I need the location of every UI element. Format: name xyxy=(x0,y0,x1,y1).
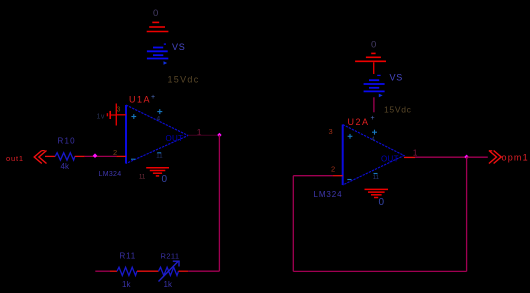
battery arrow xyxy=(379,94,383,98)
svg-text:+: + xyxy=(371,115,375,122)
svg-text:+: + xyxy=(151,94,155,101)
wire battery to opamp xyxy=(373,97,375,112)
V+ power marker xyxy=(372,130,377,135)
svg-text:15Vdc: 15Vdc xyxy=(168,75,200,85)
wire stub source to vertical xyxy=(111,114,117,116)
wire to output vertical xyxy=(179,270,189,272)
svg-text:0: 0 xyxy=(162,174,168,185)
wire output vertical xyxy=(218,135,220,271)
resistor R211 (variable) xyxy=(159,267,179,275)
port chevron >> xyxy=(489,151,501,164)
op-amp U1 triangle xyxy=(126,105,188,164)
svg-text:11: 11 xyxy=(139,175,146,181)
svg-text:0: 0 xyxy=(379,197,385,208)
battery VS (left) xyxy=(147,44,168,58)
svg-text:11: 11 xyxy=(373,175,380,181)
V- marker xyxy=(374,173,378,175)
resistor R11 xyxy=(117,267,137,275)
svg-text:LM324: LM324 xyxy=(99,171,122,178)
wire to junction J3 xyxy=(415,156,466,158)
pin 2 stub xyxy=(116,155,126,157)
svg-text:0: 0 xyxy=(371,40,376,51)
svg-text:1v: 1v xyxy=(97,114,105,121)
svg-text:2: 2 xyxy=(113,148,117,157)
feedback wire down xyxy=(466,157,468,271)
svg-text:1k: 1k xyxy=(164,280,173,289)
battery VS polarity arrow xyxy=(164,61,168,65)
port chevron << xyxy=(34,151,46,164)
output pin stub U2 xyxy=(404,156,415,158)
wire xyxy=(110,270,117,272)
wire xyxy=(188,270,219,272)
svg-text:R10: R10 xyxy=(58,137,76,146)
svg-text:VS: VS xyxy=(390,73,404,83)
svg-text:R211: R211 xyxy=(161,252,180,261)
svg-text:U1A: U1A xyxy=(129,95,151,105)
bottom wire left end xyxy=(95,270,110,272)
V+ power marker xyxy=(157,109,162,114)
ground 0 (inverted earth ground, left stack) xyxy=(147,22,169,31)
wire between resistors xyxy=(137,270,159,272)
junction J2 xyxy=(217,133,221,137)
feedback wire to pin2 xyxy=(293,175,332,177)
ground under U2A xyxy=(365,189,389,197)
feedback wire up xyxy=(292,176,294,272)
V- marker xyxy=(157,152,161,154)
svg-text:OUT: OUT xyxy=(166,134,184,143)
svg-text:1k: 1k xyxy=(122,280,131,289)
svg-text:3: 3 xyxy=(329,127,333,136)
pin 2 stub xyxy=(333,175,343,177)
svg-text:0: 0 xyxy=(153,8,158,19)
svg-text:LM324: LM324 xyxy=(314,190,343,199)
minus input marker xyxy=(347,179,351,181)
svg-text:R11: R11 xyxy=(120,252,136,261)
junction J1 xyxy=(93,153,98,158)
svg-text:3: 3 xyxy=(117,107,121,114)
svg-text:opm1: opm1 xyxy=(502,153,529,163)
source V plates xyxy=(106,113,108,116)
plus input marker xyxy=(131,114,136,119)
+input pin stub xyxy=(116,114,126,116)
wire junction to pin2 xyxy=(85,155,117,157)
svg-text:out1: out1 xyxy=(6,154,24,163)
svg-text:OUT: OUT xyxy=(381,155,399,164)
svg-text:VS: VS xyxy=(172,42,186,52)
variable resistor arrow xyxy=(159,261,180,282)
ground (inverted, right stack) xyxy=(355,53,386,61)
svg-text:1: 1 xyxy=(413,148,418,158)
wire port to R10 xyxy=(45,155,55,157)
minus input marker xyxy=(131,158,135,160)
plus input marker xyxy=(348,134,353,139)
svg-text:4: 4 xyxy=(157,116,161,123)
svg-text:15Vdc: 15Vdc xyxy=(384,105,412,115)
ground under U1A xyxy=(146,168,169,176)
battery VS (right) xyxy=(364,75,385,91)
svg-text:4k: 4k xyxy=(61,162,70,171)
op-amp U2 triangle xyxy=(343,125,404,186)
svg-text:2: 2 xyxy=(331,165,335,174)
ground stub xyxy=(373,62,375,74)
vertical red wire at +input xyxy=(115,104,117,126)
wire R10 to junction xyxy=(75,155,85,157)
resistor R10 xyxy=(55,153,75,160)
svg-text:U2A: U2A xyxy=(348,117,370,127)
svg-text:4: 4 xyxy=(371,136,375,143)
feedback wire bottom xyxy=(293,270,466,272)
svg-text:11: 11 xyxy=(156,154,163,160)
wire junction to port xyxy=(467,156,488,158)
output stub (dark) xyxy=(188,134,217,136)
junction J3 xyxy=(464,155,469,160)
